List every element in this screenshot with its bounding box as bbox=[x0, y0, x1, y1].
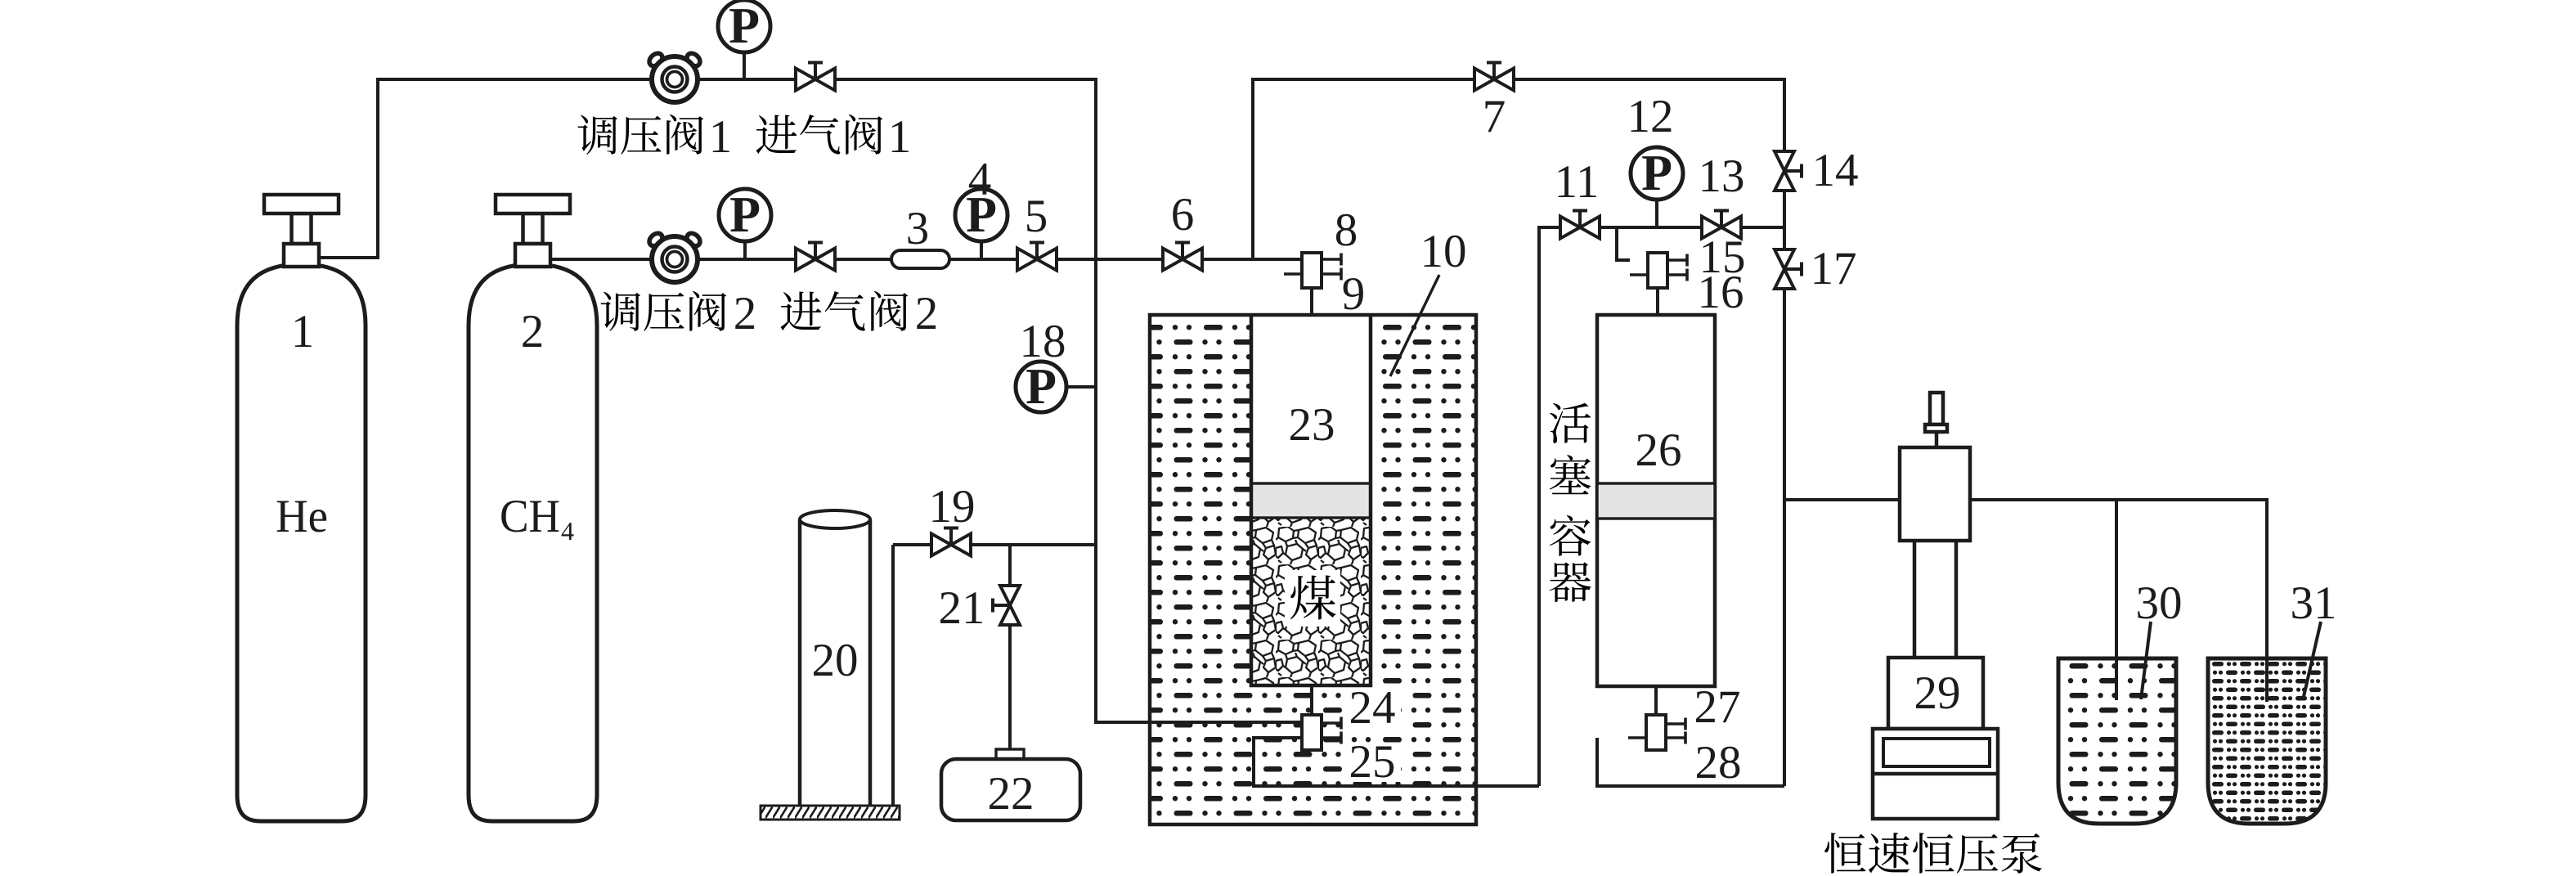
svg-text:He: He bbox=[276, 491, 328, 542]
svg-text:1: 1 bbox=[888, 111, 912, 163]
svg-text:24: 24 bbox=[1349, 682, 1396, 734]
svg-text:30: 30 bbox=[2136, 577, 2183, 629]
svg-text:P: P bbox=[1025, 359, 1057, 415]
svg-text:P: P bbox=[729, 0, 760, 54]
svg-text:31: 31 bbox=[2291, 577, 2337, 629]
svg-text:28: 28 bbox=[1695, 737, 1742, 788]
svg-text:P: P bbox=[729, 187, 761, 243]
svg-text:4: 4 bbox=[561, 516, 574, 546]
svg-text:10: 10 bbox=[1420, 226, 1467, 277]
svg-text:P: P bbox=[1641, 146, 1672, 201]
svg-text:25: 25 bbox=[1349, 736, 1396, 788]
svg-text:2: 2 bbox=[521, 306, 545, 357]
svg-text:4: 4 bbox=[968, 154, 992, 205]
svg-text:CH: CH bbox=[500, 491, 560, 542]
svg-text:7: 7 bbox=[1483, 91, 1506, 142]
svg-text:19: 19 bbox=[929, 481, 976, 532]
svg-text:1: 1 bbox=[291, 306, 315, 357]
svg-text:22: 22 bbox=[988, 768, 1034, 820]
svg-text:13: 13 bbox=[1699, 150, 1745, 202]
svg-text:17: 17 bbox=[1811, 243, 1857, 294]
svg-text:27: 27 bbox=[1694, 681, 1741, 733]
svg-text:3: 3 bbox=[906, 203, 930, 254]
svg-text:26: 26 bbox=[1636, 425, 1682, 476]
svg-text:29: 29 bbox=[1914, 667, 1961, 719]
svg-text:12: 12 bbox=[1627, 91, 1674, 142]
svg-text:11: 11 bbox=[1555, 156, 1600, 208]
svg-text:2: 2 bbox=[734, 288, 757, 339]
svg-text:1: 1 bbox=[709, 111, 733, 163]
svg-text:21: 21 bbox=[939, 582, 985, 634]
svg-text:2: 2 bbox=[915, 288, 939, 339]
svg-text:6: 6 bbox=[1171, 189, 1195, 240]
svg-text:8: 8 bbox=[1335, 204, 1358, 256]
svg-text:20: 20 bbox=[812, 635, 859, 686]
svg-text:23: 23 bbox=[1289, 399, 1335, 451]
svg-text:14: 14 bbox=[1812, 145, 1859, 196]
svg-text:5: 5 bbox=[1025, 191, 1048, 242]
svg-text:9: 9 bbox=[1342, 268, 1366, 320]
svg-text:18: 18 bbox=[1020, 316, 1066, 367]
svg-text:16: 16 bbox=[1698, 267, 1744, 318]
